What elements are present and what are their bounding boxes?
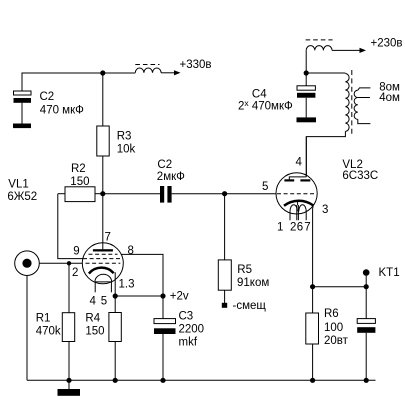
wire top-left horizontal rail	[22, 72, 136, 74]
svg-text:470 мкФ: 470 мкФ	[40, 104, 84, 116]
net 8ом label	[379, 82, 400, 94]
VL1 pin 7 label	[105, 232, 111, 244]
capacitor at KT1 electrolytic	[357, 287, 375, 381]
transformer T1 secondary	[354, 88, 370, 124]
svg-text:C3: C3	[179, 311, 194, 323]
svg-text:9: 9	[73, 246, 79, 258]
svg-text:6C33C: 6C33C	[342, 170, 378, 182]
svg-text:-смещ: -смещ	[233, 300, 267, 312]
svg-text:C2: C2	[157, 159, 172, 171]
capacitor C4 2x470мкФ	[238, 73, 315, 117]
svg-text:6Ж52: 6Ж52	[7, 191, 37, 203]
wire node to transformer primary	[306, 72, 345, 74]
resistor R3 10k	[97, 73, 136, 194]
svg-text:91ком: 91ком	[237, 277, 269, 289]
ground bar under C4	[297, 117, 317, 122]
svg-text:4: 4	[296, 156, 303, 168]
capacitor C3 2200mkf	[154, 296, 204, 380]
svg-text:1: 1	[277, 222, 283, 234]
node junction cap bottom	[364, 378, 369, 383]
VL1 pin 8 label	[128, 245, 134, 257]
svg-text:C2: C2	[40, 91, 55, 103]
svg-text:6: 6	[297, 222, 303, 234]
node junction KT1 column	[364, 284, 369, 289]
svg-text:KT1: KT1	[379, 267, 400, 279]
node junction on top rail	[100, 70, 105, 75]
VL1 pin 5 label	[101, 295, 107, 307]
VL2 pin 5 label	[262, 181, 268, 193]
net +330в	[180, 59, 212, 71]
choke L2 with core	[306, 40, 333, 73]
svg-text:R4: R4	[85, 312, 100, 324]
svg-text:2мкФ: 2мкФ	[157, 171, 185, 183]
capacitor C2 470мкФ electrolytic	[14, 73, 85, 124]
wire jack to VL1 grid1	[39, 262, 84, 264]
wire cathode to +2v node	[115, 295, 163, 297]
transformer T1 primary	[306, 74, 349, 177]
svg-text:R2: R2	[71, 163, 86, 175]
node junction R1 tap	[67, 261, 71, 265]
svg-text:1.3: 1.3	[119, 279, 135, 291]
svg-text:+330в: +330в	[180, 59, 212, 71]
node junction R1 bottom	[66, 378, 71, 383]
VL1 pins 1.3 label	[119, 279, 135, 291]
svg-text:10k: 10k	[117, 143, 136, 155]
wire jack shield down	[26, 276, 28, 381]
svg-text:2200: 2200	[179, 324, 205, 336]
svg-text:+230в: +230в	[371, 38, 403, 50]
node junction R4 bottom	[113, 378, 118, 383]
node junction cathode R6	[310, 284, 315, 289]
svg-text:20вт: 20вт	[324, 335, 349, 347]
VL2 pin 3 label	[322, 204, 328, 216]
svg-text:R5: R5	[237, 264, 252, 276]
resistor R6 100 20вт	[306, 287, 349, 381]
svg-text:7: 7	[105, 232, 111, 244]
svg-text:100: 100	[324, 322, 343, 334]
svg-text:8: 8	[128, 245, 134, 257]
svg-text:R1: R1	[36, 312, 51, 324]
capacitor C2 2мкФ coupling	[157, 159, 185, 203]
transformer T1 core	[351, 70, 353, 137]
svg-text:5: 5	[262, 181, 268, 193]
svg-text:150: 150	[70, 176, 89, 188]
svg-text:150: 150	[85, 326, 104, 338]
svg-text:2: 2	[290, 222, 296, 234]
node junction R5 tap	[222, 191, 227, 196]
svg-text:+2v: +2v	[170, 291, 189, 303]
svg-text:2: 2	[72, 267, 78, 279]
VL2 pins 1 2 6 7 labels	[277, 222, 311, 234]
svg-text:5: 5	[101, 295, 107, 307]
ground bar under C2	[13, 124, 31, 129]
svg-text:C4: C4	[252, 88, 267, 100]
VL1 pin 2 label	[72, 267, 78, 279]
wire to +330в arrow	[161, 70, 180, 75]
wire bottom rail	[27, 379, 376, 381]
svg-text:3: 3	[322, 204, 328, 216]
terminal KT1	[363, 267, 400, 287]
terminal -смещ	[222, 300, 267, 312]
wire cathode node to KT1 node	[313, 286, 367, 288]
svg-text:4ом: 4ом	[379, 92, 400, 104]
resistor R5 91ком	[218, 194, 269, 303]
node junction cathode	[113, 293, 118, 298]
wire R2 to VL1 grid2	[58, 194, 84, 259]
wire pin8 to +2v node	[121, 254, 163, 296]
net 4ом label	[379, 92, 400, 104]
node junction +2v	[160, 291, 189, 303]
svg-text:470k: 470k	[36, 326, 61, 338]
wire to +230в arrow	[332, 48, 366, 53]
node junction R6 bottom	[310, 378, 315, 383]
ground bar bottom	[58, 380, 81, 396]
input jack	[15, 251, 40, 276]
svg-text:4: 4	[90, 295, 97, 307]
VL1 pin 4 label	[90, 295, 97, 307]
wire VL2 cathode down	[312, 205, 315, 286]
resistor R2 150	[58, 163, 103, 202]
resistor R4 150	[85, 296, 121, 380]
tube VL1 6Ж52	[7, 179, 123, 297]
wire junction to coupling cap	[103, 193, 160, 195]
svg-text:R6: R6	[324, 308, 339, 320]
VL1 pin 9 label	[73, 246, 79, 258]
svg-text:mkf: mkf	[179, 337, 198, 349]
choke L1 with core	[135, 65, 161, 73]
svg-text:7: 7	[304, 222, 310, 234]
node junction choke/C4/primary	[304, 70, 309, 75]
net +230в	[371, 38, 403, 50]
node junction C3 bottom	[160, 378, 165, 383]
node junction R3/R2/anode	[100, 191, 105, 196]
VL2 pin 4 label	[296, 156, 303, 168]
tube VL2 6C33C	[276, 137, 378, 221]
svg-text:VL1: VL1	[8, 179, 28, 191]
wire coupling cap to VL2 grid	[172, 193, 277, 195]
svg-text:R3: R3	[117, 130, 132, 142]
resistor R1 470k	[36, 263, 75, 380]
